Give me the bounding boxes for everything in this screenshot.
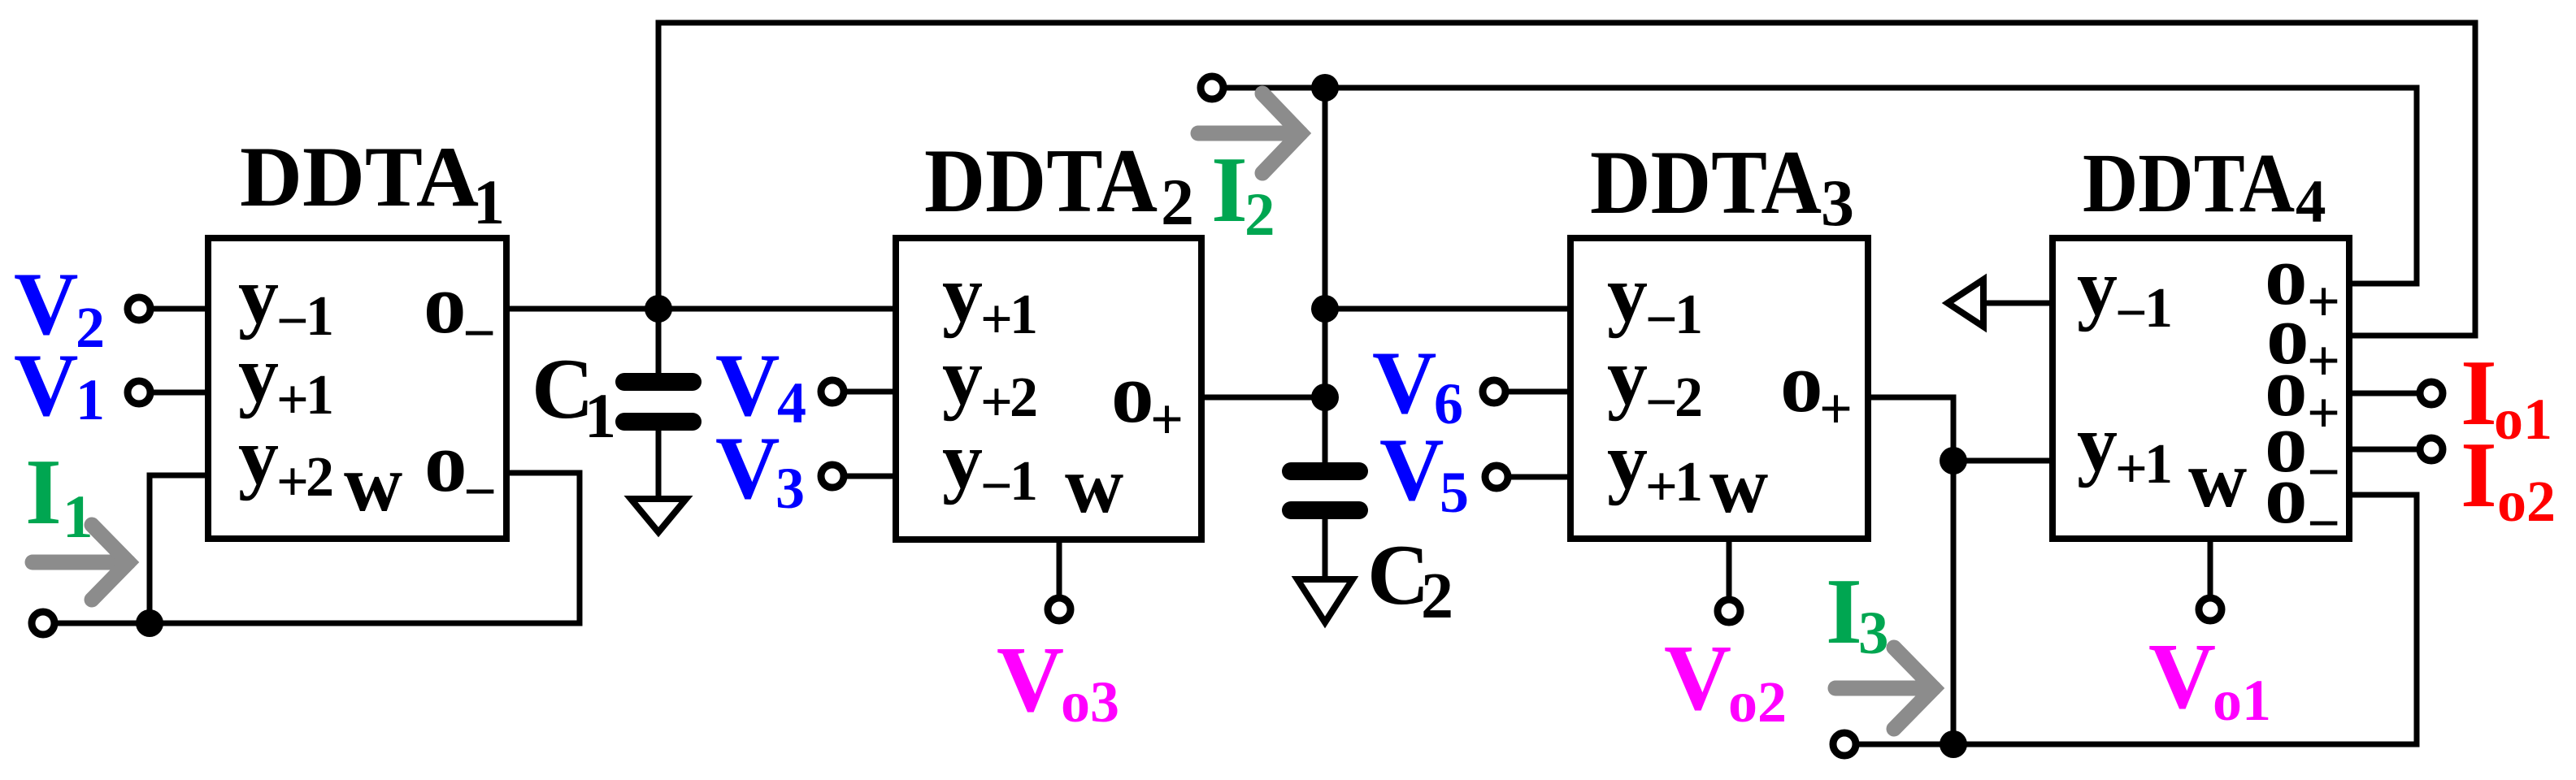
op-amp block DDTA2 (896, 238, 1201, 539)
svg-text:+: + (1645, 456, 1678, 518)
wire: node B vertical rail (I2 node) down to C2 (1323, 88, 1328, 465)
svg-text:y: y (1607, 249, 1648, 339)
current arrow I3 (1835, 648, 1934, 729)
pin label DDTA4 o- (1st) (2265, 395, 2340, 505)
svg-text:2: 2 (1010, 366, 1038, 429)
svg-text:1: 1 (306, 364, 334, 427)
ground (C1) (631, 499, 686, 532)
svg-text:y: y (238, 250, 279, 340)
wire: V2 terminal to DDTA1 y-1 (151, 306, 208, 312)
terminal V6 (1483, 380, 1505, 403)
svg-text:o2: o2 (1728, 669, 1787, 734)
label V1 (input) (14, 336, 105, 435)
svg-text:+: + (276, 369, 309, 431)
pin label DDTA4 w (2188, 434, 2247, 524)
svg-text:DDTA: DDTA (924, 131, 1158, 232)
label Vo1 (output voltage) (2148, 625, 2271, 733)
wire: V3 terminal to DDTA2 y-1 (844, 474, 896, 479)
svg-text:w: w (2188, 434, 2247, 524)
capacitor C1 (615, 373, 702, 431)
label V2 (input) (14, 254, 105, 360)
svg-text:3: 3 (775, 456, 805, 521)
svg-text:1: 1 (1010, 284, 1038, 346)
label I3 (input current) (1826, 560, 1889, 667)
wire: V5 terminal to DDTA3 y+1 (1508, 474, 1570, 480)
svg-text:y: y (1607, 331, 1648, 422)
svg-text:V: V (1372, 333, 1436, 432)
svg-text:I: I (25, 440, 62, 544)
op-amp block DDTA4 (2053, 238, 2349, 539)
node I1 junction (bottom-left rail) (136, 609, 163, 637)
svg-text:2: 2 (1245, 181, 1275, 249)
terminal V5 (1485, 466, 1508, 488)
terminal Vo2 (DDTA3 W) (1718, 600, 1740, 622)
wire: top feedback from node A up/right to DDTA4 o+ (2nd) output (658, 23, 2475, 336)
current arrow I1 (33, 525, 128, 600)
svg-text:1: 1 (1675, 451, 1703, 513)
svg-text:−: − (1645, 288, 1678, 351)
label Io1 (output current) (2461, 341, 2552, 452)
label Io2 (output current) (2461, 423, 2556, 534)
svg-text:o: o (424, 414, 467, 509)
pin label DDTA2 y-1 (942, 415, 1038, 518)
pin label DDTA4 y+1 (2077, 398, 2173, 500)
svg-text:o: o (1111, 345, 1154, 440)
svg-text:+: + (2115, 438, 2148, 500)
wire: DDTA2 W pin stub (1057, 539, 1062, 598)
svg-text:2: 2 (1675, 366, 1703, 429)
pin label DDTA2 y+1 (942, 249, 1038, 351)
svg-text:y: y (238, 329, 279, 419)
pin label DDTA3 w (1709, 440, 1768, 530)
svg-text:1: 1 (473, 167, 505, 237)
svg-text:y: y (2077, 398, 2118, 488)
terminal Vo1 (DDTA4 W) (2199, 598, 2222, 621)
wire: DDTA1 y+2 input branch to I1 rail (150, 475, 208, 623)
svg-text:V: V (1379, 420, 1444, 519)
pin label DDTA4 o+ (3rd) (2265, 339, 2340, 445)
svg-text:5: 5 (1440, 460, 1469, 525)
svg-text:1: 1 (76, 367, 105, 432)
svg-text:−: − (463, 301, 496, 366)
svg-text:+: + (2307, 269, 2340, 334)
svg-text:+: + (1150, 387, 1184, 452)
svg-text:1: 1 (1010, 450, 1038, 513)
wire: DDTA1 o- output to DDTA2 y+1 input (node A) (506, 306, 896, 312)
terminal V1 (128, 381, 150, 404)
terminal Io1 (2420, 382, 2443, 405)
wire: DDTA2 o+ output to node B (1201, 395, 1325, 401)
wire: node B to DDTA3 y-1 input (1325, 306, 1570, 312)
label DDTA1 (240, 129, 505, 237)
pin label DDTA1 w (344, 438, 402, 528)
terminal Vo3 (DDTA2 W) (1048, 598, 1071, 621)
current arrow I2 (1198, 93, 1301, 173)
capacitor C1 ground stem (656, 431, 662, 500)
svg-text:4: 4 (777, 370, 806, 435)
svg-text:w: w (1709, 440, 1768, 530)
svg-text:w: w (1065, 440, 1123, 530)
ground (C2) (1297, 579, 1353, 622)
svg-text:−: − (2115, 282, 2148, 344)
svg-text:3: 3 (1858, 600, 1889, 667)
svg-text:o: o (424, 256, 467, 351)
svg-text:1: 1 (1675, 284, 1703, 346)
svg-text:+: + (980, 288, 1013, 351)
pin label DDTA3 y+1 (1607, 416, 1703, 518)
terminal V2 (128, 297, 150, 320)
wire: DDTA3 W pin stub (1727, 539, 1732, 600)
pin label DDTA4 y-1 (2077, 242, 2173, 344)
node B junction (to DDTA3 y-1) (1311, 295, 1339, 323)
terminal I1 (32, 612, 54, 635)
pin label DDTA3 y-1 (1607, 249, 1703, 351)
label C1 (capacitor value) (532, 341, 616, 451)
label V5 (input) (1379, 420, 1469, 525)
svg-text:o1: o1 (2213, 668, 2271, 733)
svg-text:2: 2 (76, 295, 105, 360)
svg-text:1: 1 (2144, 277, 2173, 340)
terminal I2 (1201, 76, 1223, 99)
svg-text:+: + (276, 451, 309, 513)
op-amp block DDTA1 (208, 238, 506, 539)
pin label DDTA4 o+ (2nd) (2266, 287, 2340, 393)
svg-text:I: I (1211, 138, 1248, 241)
label Vo3 (output voltage) (997, 628, 1119, 734)
svg-text:V: V (14, 336, 78, 435)
pin label DDTA2 y+2 (942, 331, 1038, 434)
svg-text:o: o (1780, 335, 1823, 430)
svg-text:y: y (238, 411, 279, 501)
svg-text:I: I (1826, 560, 1862, 663)
wire: V6 terminal to DDTA3 y-2 (1505, 389, 1570, 395)
pin label DDTA1 y+2 (238, 411, 334, 513)
wire: DDTA4 o- (1st) output to Io2 terminal (2349, 447, 2420, 453)
pin label DDTA1 y+1 (238, 329, 334, 431)
terminal V3 (821, 465, 844, 487)
capacitor C2 ground stem (1323, 519, 1328, 581)
svg-text:−: − (2307, 491, 2340, 556)
label I1 (input current) (25, 440, 93, 551)
pin label DDTA4 o+ (1st) (2265, 227, 2340, 334)
wire: V1 terminal to DDTA1 y+1 (151, 390, 208, 396)
svg-text:2: 2 (306, 446, 334, 509)
label Vo2 (output voltage) (1664, 626, 1787, 734)
wire: bottom rail node D to DDTA4 o- (2nd) output (1953, 495, 2417, 744)
pin label DDTA2 w (1065, 440, 1123, 530)
pin label DDTA4 o- (2nd) (2265, 446, 2340, 556)
terminal V4 (821, 380, 844, 403)
svg-text:y: y (1607, 416, 1648, 506)
svg-text:o: o (2265, 446, 2308, 541)
svg-text:1: 1 (306, 285, 334, 348)
node B2 junction (DDTA2 o+ / C2) (1311, 383, 1339, 411)
pin label DDTA2 o+ (1111, 345, 1184, 452)
svg-text:I: I (2461, 423, 2497, 526)
svg-text:o2: o2 (2497, 469, 2556, 534)
node A junction (DDTA1 o- / C1 / top feedback) (645, 295, 672, 323)
node C junction (DDTA3 o+ / DDTA4 y+1) (1940, 447, 1967, 474)
svg-text:w: w (344, 438, 402, 528)
pin label DDTA1 y-1 (238, 250, 334, 353)
svg-text:1: 1 (63, 483, 93, 551)
terminal I3 (1833, 733, 1856, 756)
pin label DDTA1 o- (2nd) (424, 414, 497, 524)
svg-text:V: V (715, 418, 780, 518)
svg-text:y: y (942, 249, 983, 339)
svg-text:−: − (276, 290, 309, 353)
wire: I2 node rail to DDTA4 o+ (1st) output (1223, 88, 2417, 284)
terminal Io2 (2420, 438, 2443, 461)
svg-text:V: V (997, 628, 1064, 731)
svg-text:2: 2 (1421, 561, 1453, 632)
svg-text:o3: o3 (1061, 669, 1119, 734)
svg-text:3: 3 (1821, 166, 1854, 240)
svg-text:y: y (2077, 242, 2118, 332)
svg-text:y: y (942, 331, 983, 422)
wire: node C to DDTA4 y+1 input (1953, 458, 2053, 464)
pin label DDTA3 o+ (1780, 335, 1853, 441)
svg-text:V: V (2148, 625, 2216, 728)
svg-text:DDTA: DDTA (1590, 132, 1822, 233)
svg-text:−: − (1645, 371, 1678, 434)
label V3 (input) (715, 418, 805, 521)
svg-text:2: 2 (1161, 165, 1194, 239)
capacitor C1 top connection (656, 309, 662, 375)
svg-text:+: + (980, 371, 1013, 434)
label I2 (input current) (1211, 138, 1275, 249)
label V4 (input) (715, 336, 806, 435)
label DDTA3 (1590, 132, 1854, 240)
label C2 (capacitor value) (1367, 527, 1453, 632)
svg-text:−: − (980, 455, 1013, 518)
wire: DDTA4 W pin stub (2208, 539, 2213, 598)
wire: DDTA4 y-1 input with open arrow (1948, 279, 2053, 327)
pin label DDTA1 o- (1st) (424, 256, 496, 366)
svg-text:+: + (2307, 380, 2340, 445)
svg-text:V: V (1664, 626, 1731, 730)
capacitor C2 (1282, 462, 1368, 519)
wire: V4 terminal to DDTA2 y+2 (844, 389, 896, 395)
svg-text:o1: o1 (2494, 387, 2552, 452)
svg-text:−: − (463, 459, 497, 524)
label V6 (input) (1372, 333, 1463, 436)
label DDTA4 (2083, 136, 2326, 236)
svg-text:4: 4 (2296, 168, 2326, 236)
svg-text:y: y (942, 415, 983, 505)
svg-text:DDTA: DDTA (240, 129, 479, 224)
svg-text:1: 1 (2144, 433, 2173, 496)
wire: DDTA4 o+ (3rd) output to Io1 terminal (2349, 391, 2420, 396)
wire: DDTA3 o+ output to node C and bottom rail (1856, 397, 1953, 744)
op-amp block DDTA3 (1570, 238, 1868, 539)
node D junction (bottom-right rail) (1940, 730, 1967, 758)
pin label DDTA3 y-2 (1607, 331, 1703, 434)
svg-text:1: 1 (584, 380, 616, 451)
svg-text:DDTA: DDTA (2083, 136, 2295, 230)
node I2 junction (top rail) (1311, 74, 1339, 102)
wire: DDTA1 lower o- feedback to I1 input rail (54, 473, 580, 623)
svg-text:+: + (1819, 376, 1853, 441)
label DDTA2 (924, 131, 1194, 239)
